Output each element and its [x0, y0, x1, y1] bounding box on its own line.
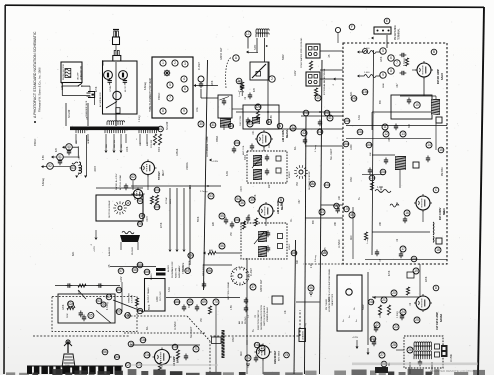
svg-text:1: 1	[162, 61, 164, 65]
svg-text:1200: 1200	[350, 144, 353, 150]
svg-text:17a: 17a	[369, 176, 375, 180]
svg-text:©Howard W. Sams & Co., Inc. 19: ©Howard W. Sams & Co., Inc. 1966	[38, 67, 42, 112]
rotary switch wafer section 1 rear	[113, 201, 127, 215]
svg-text:62a: 62a	[68, 302, 74, 306]
svg-text:6: 6	[390, 56, 392, 60]
node 50b	[154, 204, 160, 210]
svg-text:150MA: 150MA	[186, 162, 189, 170]
terminal lug GND 2	[314, 47, 318, 51]
node 33	[247, 121, 253, 127]
svg-text:OUTPUT TRANS: OUTPUT TRANS	[147, 287, 150, 303]
svg-text:21: 21	[382, 298, 386, 302]
wire loop to converter	[267, 94, 269, 125]
svg-text:1-4: 1-4	[248, 314, 250, 318]
capacitor C60b	[97, 283, 104, 287]
svg-text:68a: 68a	[174, 300, 180, 304]
svg-text:47K: 47K	[254, 87, 256, 92]
wire FM RF plate	[400, 95, 436, 97]
svg-text:38d: 38d	[310, 182, 316, 186]
svg-text:37: 37	[251, 285, 255, 289]
component value labels	[43, 56, 428, 322]
svg-text:.005: .005	[389, 137, 391, 142]
page border right	[478, 7, 484, 375]
slug box T3a	[278, 234, 283, 239]
node 70	[213, 299, 219, 305]
node 25a	[370, 336, 376, 342]
svg-text:SEL RECT: SEL RECT	[190, 326, 193, 338]
tube V1 AM CONV 6BE6	[255, 130, 273, 148]
node 59a	[188, 253, 194, 259]
node 44	[198, 76, 204, 82]
svg-text:117VAC: 117VAC	[109, 85, 112, 92]
node 18a	[411, 256, 417, 262]
svg-text:.1: .1	[90, 243, 93, 246]
svg-text:AM: AM	[238, 321, 241, 324]
resistor R33a	[256, 111, 259, 120]
svg-text:270K: 270K	[255, 194, 257, 200]
faint gray band above bottom mid	[128, 364, 218, 366]
svg-text:SEC: SEC	[280, 201, 283, 206]
svg-text:CHANGER SW: CHANGER SW	[80, 66, 83, 80]
svg-text:LH TERMINAL GUIDE: LH TERMINAL GUIDE	[206, 136, 209, 157]
fuse F1	[72, 162, 78, 164]
coil choke 1000 a	[360, 51, 380, 54]
svg-text:15b: 15b	[344, 119, 350, 123]
svg-text:1: 1	[136, 139, 138, 141]
svg-text:59b: 59b	[207, 269, 213, 273]
arrow IF bus	[373, 296, 376, 299]
capacitor C interlock a	[108, 78, 112, 85]
wire T1 lead 1	[75, 134, 77, 143]
dummy load label box	[212, 337, 222, 344]
slug box T10a	[435, 344, 440, 349]
svg-text:72: 72	[129, 342, 133, 346]
svg-text:55: 55	[220, 214, 224, 218]
svg-text:5: 5	[169, 83, 171, 87]
svg-text:6.8K: 6.8K	[43, 155, 45, 160]
svg-text:100K: 100K	[269, 142, 271, 148]
node FM feed	[335, 27, 340, 32]
output transformer winding	[122, 231, 134, 234]
capacitor C14	[384, 158, 388, 165]
svg-text:4.7meg: 4.7meg	[107, 302, 109, 310]
svg-text:117VAC: 117VAC	[174, 321, 177, 330]
svg-text:1ST AF: 1ST AF	[165, 196, 168, 204]
wire	[262, 359, 264, 375]
node 19	[413, 268, 419, 274]
socket position 7	[167, 95, 173, 101]
wire osc link	[201, 97, 218, 99]
T1 arrow b	[113, 151, 116, 154]
FM osc coil L6	[395, 156, 406, 170]
wire interlock to T1	[115, 114, 117, 126]
capacitor C interlock b	[123, 78, 127, 85]
node 72	[128, 341, 134, 347]
socket position 5	[167, 82, 173, 88]
node 63	[96, 298, 102, 304]
capacitor C51	[58, 159, 62, 166]
svg-text:AUDIO: AUDIO	[167, 265, 170, 272]
svg-text:OSC: OSC	[350, 177, 353, 182]
extra component labels	[34, 45, 391, 366]
svg-text:150: 150	[231, 231, 233, 236]
svg-text:16b: 16b	[366, 143, 372, 147]
tube V9 AF amp 6AV6	[153, 348, 172, 367]
node 62	[130, 174, 136, 180]
terminal lug ANT 2	[314, 75, 318, 79]
node 40	[315, 95, 321, 101]
svg-text:10K: 10K	[397, 201, 399, 206]
node 66c	[116, 309, 122, 315]
node 63	[70, 165, 76, 171]
wire B+ lead	[183, 188, 185, 249]
resistor R17b	[364, 232, 367, 240]
wire AVC bus	[320, 60, 323, 374]
node 73a	[140, 337, 146, 343]
resistor R67	[135, 298, 138, 306]
svg-text:AM CONV: AM CONV	[281, 129, 285, 142]
node 42	[301, 130, 307, 136]
socket position 4	[181, 76, 187, 82]
coil T3 primary (dark)	[258, 231, 267, 242]
wire IF link	[372, 231, 430, 233]
capacitor C24	[400, 314, 404, 321]
svg-text:8: 8	[390, 69, 392, 73]
capacitor C55	[224, 218, 228, 225]
svg-text:.047: .047	[397, 83, 399, 88]
node 74	[245, 355, 251, 361]
capacitor C63	[79, 311, 83, 318]
svg-text:58a: 58a	[137, 263, 143, 267]
svg-text:16: 16	[405, 211, 409, 215]
node 62a	[68, 301, 74, 307]
svg-text:1200: 1200	[156, 296, 159, 302]
terminal screw ANT	[308, 80, 311, 83]
terminal screw GND	[308, 52, 311, 55]
node 66b	[116, 287, 122, 293]
svg-text:C: C	[435, 188, 438, 192]
capacitor C75	[244, 306, 248, 313]
+125V arrow terminal	[95, 238, 98, 241]
svg-text:5: 5	[382, 49, 384, 53]
svg-text:50a: 50a	[154, 188, 160, 192]
svg-text:RADIO FM: RADIO FM	[175, 268, 178, 278]
node 24	[400, 309, 406, 315]
resistor R56	[208, 251, 216, 254]
node 15b	[344, 118, 350, 124]
svg-text:GMV: GMV	[120, 276, 123, 282]
capacitor C34	[265, 155, 269, 162]
socket position 6	[182, 86, 188, 92]
gnd arrow b	[84, 176, 87, 179]
svg-text:4-8 OHM: 4-8 OHM	[132, 295, 134, 303]
svg-text:1,000: 1,000	[364, 72, 370, 74]
node 68	[187, 299, 193, 305]
svg-text:13: 13	[401, 132, 405, 136]
resistor R71	[176, 350, 179, 359]
svg-text:25: 25	[415, 318, 419, 322]
wire RF tank	[372, 111, 431, 113]
wire B+ bus	[204, 60, 208, 290]
svg-text:35: 35	[250, 198, 254, 202]
osc coil L2 winding	[220, 119, 231, 128]
svg-text:455KC: 455KC	[289, 243, 291, 250]
svg-text:26: 26	[408, 348, 412, 352]
node 74a	[254, 342, 260, 347]
wire filter riser	[77, 146, 79, 158]
wire bottom bus 2	[130, 344, 200, 346]
wire	[367, 348, 369, 353]
node 43	[319, 209, 325, 215]
svg-text:34: 34	[291, 126, 295, 130]
resistor R50b	[155, 195, 158, 204]
svg-text:EXTERNAL AM ANTENNA: EXTERNAL AM ANTENNA	[323, 68, 326, 95]
node 28	[391, 342, 397, 348]
svg-text:19: 19	[414, 269, 418, 273]
dashed riser	[299, 310, 301, 336]
svg-text:3300: 3300	[245, 154, 247, 160]
svg-text:PRI: PRI	[128, 312, 131, 316]
svg-text:COLD WATER PIPE GROUND: COLD WATER PIPE GROUND	[300, 37, 303, 68]
terminal strip GND	[306, 44, 320, 58]
svg-text:10%: 10%	[197, 107, 199, 112]
capacitor C38c	[336, 207, 340, 214]
wire FM ant down	[386, 35, 388, 48]
svg-text:NPO: NPO	[328, 297, 331, 302]
node C	[433, 187, 439, 193]
node 59	[185, 268, 191, 274]
svg-text:6.8meg: 6.8meg	[42, 177, 45, 186]
FM ant pin 3	[388, 30, 390, 32]
capacitor C74	[244, 298, 248, 305]
AM ant coil winding	[252, 117, 260, 124]
AC interlock box	[103, 61, 138, 114]
B+ arrow	[209, 159, 212, 162]
svg-text:FM OSC: FM OSC	[442, 167, 444, 176]
svg-text:AVC: AVC	[350, 235, 353, 240]
svg-text:RATIO DET: RATIO DET	[220, 47, 223, 60]
wire RF plate	[423, 77, 425, 96]
svg-text:17: 17	[401, 247, 405, 251]
wire AUDIO lead	[169, 188, 171, 249]
wire IF line	[246, 258, 248, 345]
node 65	[88, 312, 94, 318]
svg-text:A: A	[235, 56, 238, 60]
capacitor C71	[184, 354, 188, 361]
slug box T10b	[435, 352, 440, 357]
AC interlock plug P2 on box top	[113, 51, 121, 62]
wire T10 lead a	[409, 362, 411, 374]
wire	[53, 156, 57, 158]
wire IF amp bus	[372, 296, 420, 298]
svg-text:560K: 560K	[149, 304, 151, 310]
svg-text:6AG5: 6AG5	[440, 72, 444, 80]
IF transformer T10 can (dashed)	[404, 336, 443, 368]
terminal screw GND b	[314, 52, 317, 55]
capacitor C64	[82, 315, 86, 322]
capacitor C56	[230, 222, 234, 229]
capacitor C68	[182, 305, 186, 312]
svg-text:31: 31	[211, 123, 215, 127]
node 59b	[207, 268, 213, 274]
svg-text:22K: 22K	[79, 289, 81, 294]
coil squiggle 1000 conv	[390, 204, 399, 207]
wire T5 lead	[120, 242, 122, 250]
switch pivot	[78, 85, 79, 86]
node 16	[404, 210, 410, 216]
node 58	[132, 267, 138, 273]
wire loop lead c	[267, 62, 269, 80]
svg-text:34d: 34d	[324, 183, 330, 187]
junction AVC 2	[319, 128, 321, 130]
capacitor C18	[399, 252, 403, 259]
svg-text:66c: 66c	[116, 310, 122, 314]
capacitor C59	[202, 282, 206, 289]
svg-text:FM RF AMP: FM RF AMP	[436, 69, 440, 84]
node 67	[106, 294, 112, 300]
svg-text:35W4: 35W4	[216, 135, 219, 142]
terminal lug GND 1	[309, 47, 313, 51]
svg-text:14: 14	[427, 143, 431, 147]
svg-text:62: 62	[131, 175, 135, 179]
node B	[431, 49, 437, 55]
slug box T2a	[276, 156, 281, 161]
wire T1 lead 7	[146, 134, 148, 144]
resistor R30	[153, 134, 156, 145]
tube V3 FM RF AMP 6AG5	[415, 61, 433, 79]
wire	[248, 52, 258, 54]
svg-text:455KC: 455KC	[289, 171, 291, 178]
resistor R64	[67, 306, 75, 309]
svg-text:24a: 24a	[368, 300, 374, 304]
capacitor C16	[403, 217, 407, 224]
terminal strip ANT	[306, 72, 320, 86]
svg-text:B: B	[433, 50, 435, 54]
svg-text:.02: .02	[397, 238, 399, 242]
wire filter b	[63, 156, 78, 158]
node 16b	[366, 142, 372, 148]
wire AC lead down	[115, 62, 117, 126]
svg-text:2: 2	[174, 61, 176, 65]
wire +125V lead	[176, 188, 178, 249]
svg-text:52: 52	[48, 164, 52, 168]
svg-text:5Y3GT: 5Y3GT	[157, 171, 161, 180]
node 23	[393, 324, 399, 330]
pilot lamp symbol	[164, 70, 171, 77]
svg-text:60~: 60~	[146, 325, 149, 330]
svg-text:9: 9	[183, 109, 185, 113]
wire audio bus 3	[189, 185, 191, 265]
capacitor C35a	[232, 147, 236, 154]
rotary switch S1 section 1 front	[294, 165, 308, 179]
svg-text:560K: 560K	[67, 313, 69, 318]
junction AM line	[267, 111, 269, 113]
svg-text:455KC: 455KC	[158, 92, 161, 100]
node 35a	[234, 140, 240, 146]
svg-text:SO-239: SO-239	[68, 109, 71, 118]
svg-text:28: 28	[392, 343, 396, 347]
node 27	[379, 352, 385, 358]
svg-text:27: 27	[380, 353, 384, 357]
socket position 3	[182, 61, 188, 67]
socket position 8	[160, 108, 166, 114]
wire T1 lead 5b	[125, 134, 127, 143]
node 24a	[368, 299, 374, 305]
svg-text:70: 70	[214, 300, 218, 304]
svg-text:7: 7	[396, 61, 398, 65]
socket position 9	[181, 108, 187, 114]
output transformer T5 box	[145, 279, 166, 312]
svg-text:61: 61	[159, 127, 163, 131]
node 8	[388, 68, 394, 74]
svg-text:18K: 18K	[380, 221, 382, 226]
resistor R3	[309, 61, 312, 70]
node 15c	[357, 129, 363, 135]
svg-text:15c: 15c	[357, 130, 363, 134]
resistor R2	[241, 82, 244, 90]
node 34b	[324, 110, 330, 116]
svg-text:.005: .005	[325, 247, 327, 252]
svg-text:1.5K: 1.5K	[231, 305, 233, 310]
capacitor C58 (dark)	[156, 273, 166, 276]
svg-text:10%: 10%	[380, 313, 382, 318]
tube V8 rectifier 5Y3GT	[140, 160, 157, 177]
wire to jack	[89, 86, 91, 91]
slug box T2b	[276, 168, 281, 173]
wave switch box S1	[250, 62, 269, 80]
line arrow a	[62, 146, 65, 149]
wire to osc can	[196, 85, 218, 87]
svg-text:SEL RECT: SEL RECT	[330, 148, 333, 160]
svg-text:PHONO: PHONO	[132, 247, 134, 255]
wire right column	[121, 282, 123, 312]
T3 tuning arrow	[254, 232, 264, 244]
svg-text:12: 12	[384, 132, 388, 136]
diagonal link a	[78, 290, 86, 299]
wire AVC feed	[301, 115, 343, 117]
coil T10 primary b	[414, 346, 432, 350]
svg-text:TWEETER: TWEETER	[129, 293, 131, 303]
tone network box	[58, 294, 115, 323]
T1 secondary winding 1	[76, 129, 87, 133]
capacitor C50	[67, 149, 71, 156]
capacitor C11	[394, 124, 398, 131]
loop antenna terminal	[245, 31, 251, 37]
node 69	[201, 299, 207, 305]
ground symbol det	[246, 364, 250, 367]
svg-text:49: 49	[140, 214, 144, 218]
node 72b	[125, 362, 131, 367]
svg-text:20: 20	[392, 291, 396, 295]
svg-text:.0047: .0047	[102, 59, 105, 66]
wire FM IF left bus	[367, 272, 369, 345]
resistor R24	[406, 287, 409, 295]
capacitor C17a	[368, 168, 372, 175]
dial lamp I1	[113, 91, 121, 99]
svg-text:CAPACITORS: CAPACITORS	[331, 293, 334, 306]
svg-text:59: 59	[186, 269, 190, 273]
svg-text:470K: 470K	[389, 270, 391, 276]
svg-text:+125V: +125V	[94, 245, 96, 252]
svg-text:53: 53	[209, 194, 213, 198]
tube V5 1ST FM IF AMP 6AU6A	[414, 294, 432, 312]
coil stack stripes	[222, 332, 225, 357]
svg-text:FIL: FIL	[290, 218, 293, 222]
B+ arrow	[183, 250, 186, 253]
+125V arrow	[176, 250, 179, 253]
svg-text:35a: 35a	[234, 141, 240, 145]
switch section 1 rear box	[96, 195, 143, 221]
